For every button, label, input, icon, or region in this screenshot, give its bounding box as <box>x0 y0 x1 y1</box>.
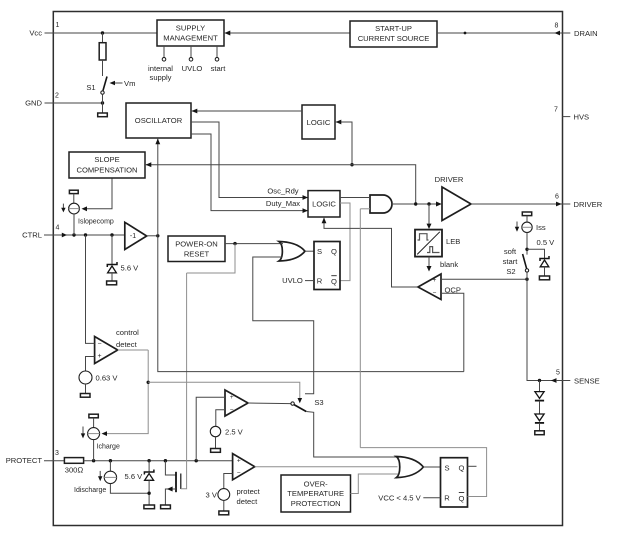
wire bar to Islopecomp <box>73 194 75 204</box>
amp -1 <box>125 222 147 249</box>
svg-text:PROTECTION: PROTECTION <box>291 499 341 508</box>
wire node to 0.5V zener <box>527 249 545 258</box>
svg-text:S: S <box>317 247 322 256</box>
node S2 bottom <box>525 278 528 281</box>
svg-text:300Ω: 300Ω <box>65 466 84 475</box>
gate OR (latch2 set) <box>396 457 423 478</box>
amp DRIVER <box>442 187 471 221</box>
ground (PROTECT zener) <box>144 505 155 509</box>
wire resistor top <box>102 33 104 43</box>
wire startup to supply management with arrow <box>224 32 350 34</box>
node slope line / logic-upper <box>350 163 353 166</box>
wire POR to MOSFET gate <box>181 273 187 489</box>
wire oscillator Osc_Rdy to logic <box>191 122 308 198</box>
node on drain rail <box>464 32 467 35</box>
gate AND <box>370 195 392 213</box>
svg-text:2.5 V: 2.5 V <box>225 427 244 436</box>
switch S3 contact <box>291 402 294 405</box>
svg-text:SENSE: SENSE <box>574 376 600 385</box>
block LOGIC (mid) <box>308 191 340 217</box>
svg-text:S1: S1 <box>86 83 95 92</box>
wire GND <box>45 102 103 104</box>
svg-text:OSCILLATOR: OSCILLATOR <box>135 116 183 125</box>
gate OR (latch1 set) <box>279 242 305 262</box>
block OSCILLATOR <box>126 103 191 138</box>
supply bar (Iss) <box>522 212 531 216</box>
switch S3 blade <box>294 405 306 412</box>
svg-text:+: + <box>237 458 241 465</box>
svg-text:−: − <box>237 470 241 477</box>
wire 3V to ground <box>223 500 225 511</box>
wire VCC rail <box>45 32 158 34</box>
svg-text:-1: -1 <box>130 233 136 240</box>
wire OCP minus right-down <box>441 293 464 371</box>
svg-text:TEMPERATURE: TEMPERATURE <box>287 489 344 498</box>
Vm arrow <box>113 82 123 84</box>
node zener/Idischarge <box>147 492 150 495</box>
comparator control detect <box>95 337 118 364</box>
svg-text:LEB: LEB <box>446 237 460 246</box>
svg-text:protect: protect <box>237 487 261 496</box>
supply bar (Icharge) <box>89 414 98 418</box>
svg-text:R: R <box>444 493 450 502</box>
node PROTECT/zener <box>147 459 150 462</box>
node POR branch <box>233 242 236 245</box>
flip-flop latch1 <box>314 242 340 290</box>
current source Icharge <box>88 428 100 440</box>
svg-text:5.6 V: 5.6 V <box>125 472 144 481</box>
block LOGIC (upper) <box>302 105 335 139</box>
terminal internal supply <box>162 46 166 61</box>
svg-text:5.6 V: 5.6 V <box>121 264 140 273</box>
svg-text:Icharge: Icharge <box>97 443 120 450</box>
svg-text:+: + <box>97 353 101 360</box>
switch S2 contact <box>525 269 528 272</box>
node control detect branch <box>147 381 150 384</box>
block OVER-TEMPERATURE PROTECTION <box>281 475 351 512</box>
svg-text:OVER-: OVER- <box>304 480 329 489</box>
wire resistor to S1 <box>102 60 104 76</box>
pin 5 arrow <box>551 378 557 383</box>
svg-text:DRIVER: DRIVER <box>574 200 603 209</box>
zener 5.6V (CTRL) <box>107 235 117 281</box>
wire control detect plus to 0.63V <box>86 357 95 372</box>
wire 2.5V to ground <box>215 437 217 449</box>
arrow current direction Islopecomp <box>61 204 65 213</box>
block SLOPE COMPENSATION <box>69 152 145 178</box>
wire S1 contact to GND <box>102 94 104 113</box>
transistor Q1 (protect MOSFET) drain lead <box>165 461 176 475</box>
wire Iss to S2 <box>526 233 528 255</box>
svg-text:−: − <box>433 289 437 296</box>
block START-UP CURRENT SOURCE <box>350 21 437 47</box>
svg-text:blank: blank <box>440 260 458 269</box>
wire logic-mid to AND top input <box>340 197 370 199</box>
wire CTRL to control detect minus <box>86 235 95 343</box>
wire POR output <box>225 243 281 245</box>
svg-text:LOGIC: LOGIC <box>312 200 336 209</box>
current source Islopecomp <box>69 203 80 214</box>
wire Icharge to PROTECT <box>93 440 95 461</box>
node PROTECT/MOSFET <box>164 459 167 462</box>
svg-text:S2: S2 <box>506 267 515 276</box>
svg-text:4: 4 <box>56 225 60 232</box>
svg-text:PROTECT: PROTECT <box>6 456 43 465</box>
wire LEB to OCP with arrow <box>428 257 430 268</box>
svg-text:2: 2 <box>55 93 59 100</box>
IC boundary <box>53 12 562 526</box>
wire POR branch down-left to gate line <box>187 244 235 273</box>
transistor Q1 gate bar <box>180 474 182 490</box>
svg-text:R: R <box>317 277 323 286</box>
wire OR1 to latch1 S <box>305 250 314 252</box>
ground (0.5V zener) <box>539 276 549 280</box>
ground (2.5V) <box>211 449 221 453</box>
svg-text:0.5 V: 0.5 V <box>537 238 556 247</box>
node S1/GND junction <box>101 101 104 104</box>
node CTRL/zener <box>110 233 113 236</box>
svg-text:Idischarge: Idischarge <box>74 487 106 494</box>
svg-text:+: + <box>230 394 234 401</box>
transistor Q1 source lead with arrow <box>165 487 176 506</box>
svg-text:RESET: RESET <box>184 249 210 258</box>
wire OR lower input from S3 path <box>253 257 314 394</box>
comparator protect detect <box>233 454 255 480</box>
svg-text:COMPENSATION: COMPENSATION <box>76 166 137 175</box>
source 0.63V <box>79 371 92 384</box>
svg-text:supply: supply <box>150 73 172 82</box>
svg-text:Islopecomp: Islopecomp <box>78 218 114 225</box>
flip-flop latch2 <box>441 458 468 507</box>
ground (below S1) <box>98 113 108 117</box>
pin 8 arrow <box>554 31 560 36</box>
svg-text:Vcc: Vcc <box>29 29 42 38</box>
wire PROTECT rail <box>84 460 233 462</box>
zener 5.6V (PROTECT) <box>144 461 154 505</box>
svg-text:S: S <box>444 464 449 473</box>
svg-text:START-UP: START-UP <box>375 24 412 33</box>
wire Islopecomp to CTRL <box>73 214 75 235</box>
wire Idischarge to zener foot <box>110 484 149 494</box>
svg-text:Q: Q <box>331 277 337 286</box>
wire latch2 Q stub <box>468 465 477 467</box>
wire bar to Icharge <box>93 418 95 428</box>
supply bar (Islopecomp) <box>69 190 78 193</box>
node SENSE/diodes <box>538 379 541 382</box>
svg-text:1: 1 <box>56 22 60 29</box>
svg-text:Q: Q <box>459 494 465 503</box>
source 2.5V <box>210 426 220 436</box>
ground (CTRL zener) <box>107 281 117 285</box>
wire driver-node to logic-upper with arrow <box>335 122 352 165</box>
wire driver output to pin 6 <box>471 203 570 205</box>
wire UVLO to latch1 R <box>305 280 314 282</box>
node VCC/resistor junction <box>101 31 104 34</box>
svg-text:+: + <box>433 277 437 284</box>
transistor Q1 channel bar <box>175 472 177 492</box>
source 3V <box>218 489 230 501</box>
ground (MOSFET source) <box>161 505 171 509</box>
node driver/slope branch <box>414 202 417 205</box>
svg-text:7: 7 <box>554 107 558 114</box>
wire latch2 Qbar feedback <box>360 448 486 497</box>
switch S1 contact <box>101 91 104 94</box>
svg-text:control: control <box>116 328 139 337</box>
wire oscillator Duty_Max to logic <box>191 134 308 211</box>
wire 0.63V to ground <box>85 384 87 394</box>
svg-text:UVLO: UVLO <box>282 276 303 285</box>
wire OCP output to logic-mid bottom with arrow <box>324 217 418 287</box>
svg-text:DRIVER: DRIVER <box>435 175 464 184</box>
node PROTECT/Icharge <box>92 459 95 462</box>
svg-text:SUPPLY: SUPPLY <box>176 24 205 33</box>
svg-text:MANAGEMENT: MANAGEMENT <box>163 34 218 43</box>
wire logic-upper to oscillator with arrow <box>191 110 302 112</box>
svg-text:DRAIN: DRAIN <box>574 29 598 38</box>
wire -1 output <box>147 235 158 237</box>
wire OR2 to latch2 S <box>423 466 440 468</box>
node CTRL/control-detect <box>84 233 87 236</box>
wire POR to OR input <box>281 243 284 245</box>
svg-text:3: 3 <box>55 450 59 457</box>
svg-text:−: − <box>97 340 101 347</box>
resistor (VCC divider) <box>99 43 106 60</box>
node -1 output <box>156 234 159 237</box>
wire control detect output down <box>118 349 149 351</box>
block POWER-ON RESET <box>168 236 225 262</box>
wire protect detect minus to 3V <box>224 474 233 489</box>
svg-text:VCC < 4.5 V: VCC < 4.5 V <box>378 493 421 502</box>
diode D1 (sense clamp) <box>535 381 544 401</box>
wire driver node to LEB with arrow <box>428 204 430 226</box>
switch S1 blade <box>103 77 107 91</box>
node PROTECT/Idischarge <box>109 459 112 462</box>
svg-text:LOGIC: LOGIC <box>307 118 331 127</box>
node S2 top <box>525 248 528 251</box>
svg-text:3 V: 3 V <box>206 490 218 499</box>
current source Idischarge <box>104 461 116 484</box>
diode D2 (sense clamp) <box>535 401 544 431</box>
current source Iss <box>522 222 532 232</box>
node PROTECT/2.5V-comp <box>195 459 198 462</box>
svg-text:soft: soft <box>504 247 517 256</box>
svg-text:GND: GND <box>25 99 42 108</box>
arrow current direction Icharge <box>81 427 85 439</box>
node driver/LEB branch <box>427 202 430 205</box>
svg-text:CTRL: CTRL <box>22 231 42 240</box>
wire VCC<4.5V to latch2 R <box>423 497 440 499</box>
ground (3V) <box>219 511 229 515</box>
wire control branch to S3 arrow <box>148 382 300 399</box>
wire -1 output down to OCP minus rail <box>158 236 464 372</box>
comparator OCP <box>418 274 441 300</box>
wire startup to DRAIN pin <box>437 32 570 34</box>
svg-text:−: − <box>230 406 234 413</box>
terminal UVLO <box>189 46 193 61</box>
wire -1 output to oscillator with arrow <box>157 138 159 236</box>
svg-text:CURRENT SOURCE: CURRENT SOURCE <box>358 34 430 43</box>
wire S2 down to SENSE <box>527 272 554 380</box>
wire slope-comp to Islopecomp control <box>86 178 112 209</box>
svg-text:Duty_Max: Duty_Max <box>266 199 300 208</box>
svg-text:5: 5 <box>556 370 560 377</box>
svg-text:detect: detect <box>237 497 259 506</box>
wire protect detect output to OR <box>255 466 398 468</box>
svg-text:Q: Q <box>331 247 337 256</box>
wire AND output to driver <box>392 203 438 205</box>
svg-text:HVS: HVS <box>574 112 590 121</box>
svg-text:Vm: Vm <box>124 79 135 88</box>
switch S2 blade <box>523 254 527 269</box>
arrow current direction Iss <box>515 222 519 232</box>
wire bar to Iss <box>526 216 528 222</box>
svg-text:detect: detect <box>116 340 138 349</box>
block SUPPLY MANAGEMENT <box>157 20 224 46</box>
svg-text:SLOPE: SLOPE <box>94 155 119 164</box>
wire S3 output down to OR <box>306 412 396 458</box>
resistor 300 ohm <box>64 458 83 464</box>
svg-text:start: start <box>211 64 227 73</box>
wire latch1 Qbar to logic-mid <box>340 203 350 281</box>
svg-text:S3: S3 <box>314 398 323 407</box>
svg-text:UVLO: UVLO <box>182 64 203 73</box>
wire 2.5V comp minus to source <box>216 410 225 427</box>
svg-text:start: start <box>503 257 519 266</box>
ground (sense diodes) <box>535 431 544 435</box>
svg-text:Iss: Iss <box>536 223 546 232</box>
svg-text:POWER-ON: POWER-ON <box>175 239 218 248</box>
wire 2.5V comp output to S3 <box>248 402 291 405</box>
comparator 2.5V (S3 control) <box>225 390 248 416</box>
block LEB <box>415 230 442 257</box>
svg-text:Q: Q <box>459 464 465 473</box>
wire driver node to slope compensation <box>145 165 416 204</box>
node CTRL/Islopecomp <box>72 233 75 236</box>
wire SENSE outside stub <box>556 380 570 382</box>
wire S2 node to OCP plus <box>441 278 527 280</box>
wire PROTECT to resistor <box>44 460 64 462</box>
svg-text:6: 6 <box>555 194 559 201</box>
svg-text:Osc_Rdy: Osc_Rdy <box>267 187 298 196</box>
wire control-detect to Icharge control arrow <box>106 382 148 433</box>
wire PROTECT to 2.5V comp plus <box>196 397 225 460</box>
ground (0.63V) <box>80 394 90 398</box>
arrow current direction Idischarge <box>98 471 102 481</box>
wire overtemp to OR lower input <box>351 474 399 494</box>
svg-text:0.63 V: 0.63 V <box>96 373 119 382</box>
terminal start <box>215 46 219 61</box>
pin 7 HVS stub <box>563 116 571 118</box>
zener 0.5V (soft start) <box>540 256 549 276</box>
wire CTRL <box>44 234 125 236</box>
wire latch2 feedback to AND lower input <box>360 208 370 210</box>
svg-text:8: 8 <box>555 23 559 30</box>
